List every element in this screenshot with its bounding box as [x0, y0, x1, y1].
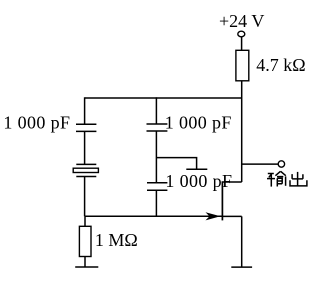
svg-text:+24 V: +24 V: [219, 11, 264, 31]
svg-text:1 MΩ: 1 MΩ: [95, 230, 138, 250]
svg-text:4.7 kΩ: 4.7 kΩ: [256, 55, 305, 75]
svg-text:1 000 pF: 1 000 pF: [165, 171, 232, 191]
svg-text:1 000 pF: 1 000 pF: [165, 113, 232, 133]
svg-text:1 000 pF: 1 000 pF: [3, 113, 70, 133]
